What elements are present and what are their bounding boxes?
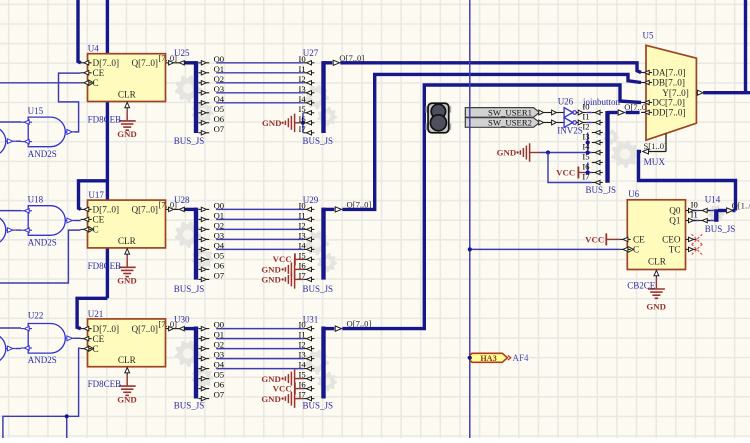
- svg-text:I7: I7: [299, 271, 307, 281]
- svg-text:O1: O1: [214, 330, 225, 340]
- svg-text:Q[7..0]: Q[7..0]: [131, 324, 158, 334]
- svg-text:INV2S: INV2S: [557, 126, 583, 136]
- svg-text:BUS_JS: BUS_JS: [705, 224, 736, 234]
- svg-text:Y[7..0]: Y[7..0]: [662, 88, 689, 98]
- svg-text:I1: I1: [299, 64, 306, 74]
- svg-text:I5: I5: [299, 251, 306, 261]
- svg-text:CE: CE: [93, 68, 105, 78]
- svg-text:U15: U15: [28, 106, 44, 116]
- svg-text:U28: U28: [174, 195, 190, 205]
- svg-text:I5: I5: [299, 104, 306, 114]
- svg-text:I2: I2: [299, 74, 306, 84]
- svg-text:BUS_JS: BUS_JS: [586, 185, 617, 195]
- svg-text:O7: O7: [214, 390, 225, 400]
- svg-text:GND: GND: [262, 118, 282, 128]
- svg-text:GND: GND: [117, 276, 137, 286]
- svg-text:U14: U14: [705, 195, 721, 205]
- svg-text:U5: U5: [643, 31, 654, 41]
- svg-text:D[7..0]: D[7..0]: [93, 58, 120, 68]
- svg-text:I4: I4: [299, 241, 307, 251]
- svg-text:CLR: CLR: [648, 256, 667, 266]
- svg-text:DD[7..0]: DD[7..0]: [652, 108, 685, 118]
- svg-text:SW_USER1: SW_USER1: [488, 108, 532, 118]
- svg-text:I0: I0: [691, 200, 698, 210]
- svg-text:I6: I6: [299, 380, 307, 390]
- svg-text:I1: I1: [299, 211, 306, 221]
- svg-text:DC[7..0]: DC[7..0]: [652, 98, 685, 108]
- svg-text:O6: O6: [214, 261, 225, 271]
- svg-text:CLR: CLR: [118, 90, 137, 100]
- svg-text:O0: O0: [214, 201, 225, 211]
- svg-text:U26: U26: [558, 97, 574, 107]
- svg-text:Q[7..0]: Q[7..0]: [131, 58, 158, 68]
- svg-text:AND2S: AND2S: [28, 149, 57, 159]
- svg-text:I7: I7: [299, 390, 307, 400]
- svg-text:O[7..0]: O[7..0]: [339, 53, 364, 63]
- svg-text:GND: GND: [117, 129, 137, 139]
- svg-text:S[1..0]: S[1..0]: [644, 141, 668, 151]
- svg-text:CE: CE: [93, 334, 105, 344]
- svg-text:CEO: CEO: [662, 235, 681, 245]
- svg-text:BUS_JS: BUS_JS: [174, 136, 205, 146]
- svg-text:GND: GND: [261, 275, 281, 285]
- svg-text:U21: U21: [88, 309, 104, 319]
- svg-text:CLR: CLR: [118, 355, 137, 365]
- svg-text:U27: U27: [303, 48, 319, 58]
- svg-text:I2: I2: [299, 340, 306, 350]
- svg-text:O4: O4: [214, 94, 225, 104]
- svg-text:O2: O2: [214, 221, 225, 231]
- svg-text:FD8CEB: FD8CEB: [88, 115, 122, 125]
- svg-text:U31: U31: [303, 314, 319, 324]
- svg-text:D[7..0]: D[7..0]: [93, 205, 120, 215]
- svg-text:U4: U4: [88, 44, 99, 54]
- svg-text:O7: O7: [214, 271, 225, 281]
- svg-text:I1: I1: [299, 330, 306, 340]
- svg-text:I3: I3: [582, 131, 589, 141]
- svg-text:AND2S: AND2S: [28, 355, 57, 365]
- svg-text:U29: U29: [303, 195, 319, 205]
- svg-text:U18: U18: [28, 195, 44, 205]
- svg-text:Q1: Q1: [669, 216, 681, 226]
- svg-text:I7: I7: [299, 124, 307, 134]
- svg-text:O3: O3: [214, 350, 225, 360]
- svg-text:I2: I2: [299, 221, 306, 231]
- svg-text:DB[7..0]: DB[7..0]: [652, 78, 685, 88]
- svg-text:BUS_JS: BUS_JS: [303, 284, 334, 294]
- svg-text:GND: GND: [117, 394, 137, 404]
- svg-text:CLR: CLR: [118, 236, 137, 246]
- svg-text:CB2CE: CB2CE: [627, 280, 656, 290]
- svg-text:O6: O6: [214, 380, 225, 390]
- svg-text:I4: I4: [582, 141, 590, 151]
- svg-text:I7: I7: [582, 171, 590, 181]
- svg-text:HA3: HA3: [480, 354, 496, 363]
- svg-text:BUS_JS: BUS_JS: [303, 401, 334, 411]
- svg-text:BUS_JS: BUS_JS: [174, 401, 205, 411]
- svg-text:BUS_JS: BUS_JS: [174, 284, 205, 294]
- svg-text:O2: O2: [214, 340, 225, 350]
- svg-text:I3: I3: [299, 84, 306, 94]
- svg-text:U30: U30: [174, 314, 190, 324]
- svg-text:I5: I5: [299, 370, 306, 380]
- svg-text:O[7..0]: O[7..0]: [347, 200, 372, 210]
- svg-text:FD8CEB: FD8CEB: [88, 261, 122, 271]
- svg-text:GND: GND: [261, 374, 281, 384]
- svg-text:O6: O6: [214, 114, 225, 124]
- svg-text:I6: I6: [299, 261, 307, 271]
- svg-text:U17: U17: [88, 190, 104, 200]
- svg-text:O4: O4: [214, 241, 225, 251]
- svg-text:O5: O5: [214, 104, 225, 114]
- svg-text:I4: I4: [299, 94, 307, 104]
- svg-text:O1: O1: [214, 211, 225, 221]
- svg-text:I4: I4: [299, 360, 307, 370]
- svg-text:O2: O2: [214, 74, 225, 84]
- svg-text:DA[7..0]: DA[7..0]: [652, 68, 685, 78]
- svg-text:BUS_JS: BUS_JS: [303, 136, 334, 146]
- svg-text:AF4: AF4: [513, 353, 530, 363]
- svg-text:GND: GND: [261, 394, 281, 404]
- svg-text:O5: O5: [214, 370, 225, 380]
- svg-text:GND: GND: [261, 265, 281, 275]
- svg-text:O0: O0: [214, 320, 225, 330]
- svg-text:I3: I3: [299, 350, 306, 360]
- svg-text:Q[7..0]: Q[7..0]: [131, 205, 158, 215]
- svg-text:O3: O3: [214, 231, 225, 241]
- svg-text:MUX: MUX: [644, 157, 666, 167]
- svg-text:I5: I5: [582, 151, 589, 161]
- svg-text:VCC: VCC: [273, 383, 292, 393]
- svg-text:U6: U6: [628, 189, 639, 199]
- svg-text:O7: O7: [214, 124, 225, 134]
- svg-text:O0: O0: [214, 54, 225, 64]
- svg-text:O[1..0]: O[1..0]: [732, 200, 750, 210]
- svg-text:TC: TC: [669, 245, 681, 255]
- svg-text:D[7..0]: D[7..0]: [93, 324, 120, 334]
- svg-text:O1: O1: [214, 64, 225, 74]
- svg-text:I6: I6: [299, 114, 307, 124]
- svg-text:O[7..0]: O[7..0]: [347, 319, 372, 329]
- svg-text:VCC: VCC: [273, 254, 292, 264]
- svg-text:U22: U22: [28, 310, 44, 320]
- svg-text:Q0: Q0: [669, 206, 681, 216]
- svg-text:CE: CE: [633, 235, 645, 245]
- svg-text:O5: O5: [214, 251, 225, 261]
- svg-text:GND: GND: [646, 302, 666, 312]
- svg-text:AND2S: AND2S: [28, 238, 57, 248]
- svg-text:SW_USER2: SW_USER2: [488, 118, 532, 128]
- svg-text:I6: I6: [582, 161, 590, 171]
- svg-text:I3: I3: [299, 231, 306, 241]
- svg-text:FD8CEB: FD8CEB: [88, 379, 122, 389]
- svg-text:GND: GND: [497, 148, 517, 158]
- svg-text:O4: O4: [214, 360, 225, 370]
- svg-text:joinbutton: joinbutton: [582, 97, 621, 107]
- svg-text:CE: CE: [93, 215, 105, 225]
- svg-text:O3: O3: [214, 84, 225, 94]
- svg-text:VCC: VCC: [585, 234, 604, 244]
- svg-text:U25: U25: [174, 48, 190, 58]
- svg-text:VCC: VCC: [556, 167, 575, 177]
